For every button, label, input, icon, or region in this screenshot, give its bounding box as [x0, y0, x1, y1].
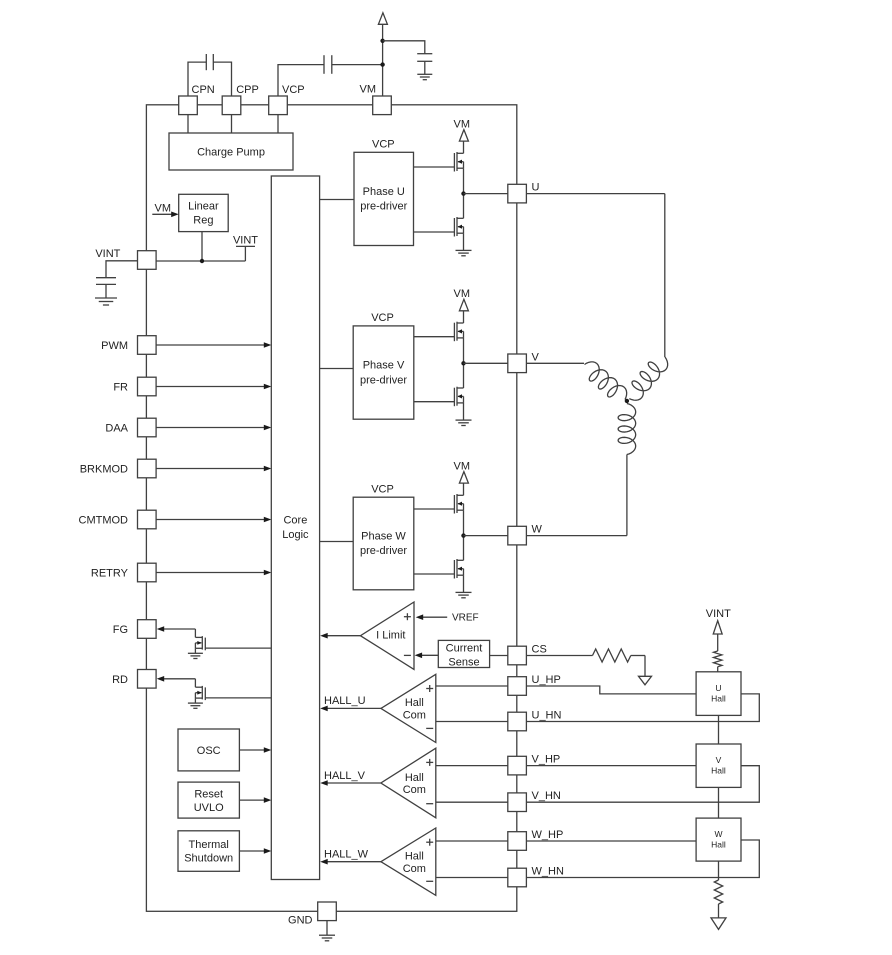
- svg-text:CS: CS: [532, 644, 547, 656]
- svg-text:U: U: [715, 683, 721, 693]
- svg-text:PWM: PWM: [101, 340, 128, 352]
- svg-text:VCP: VCP: [371, 312, 394, 324]
- svg-text:VINT: VINT: [95, 248, 120, 260]
- svg-text:V_HP: V_HP: [532, 754, 561, 766]
- svg-text:CPP: CPP: [236, 84, 259, 96]
- svg-text:U_HN: U_HN: [532, 710, 562, 722]
- svg-text:FG: FG: [113, 624, 128, 636]
- svg-text:VM: VM: [360, 84, 377, 96]
- svg-text:Hall: Hall: [711, 840, 726, 850]
- svg-text:pre-driver: pre-driver: [360, 545, 407, 557]
- svg-text:pre-driver: pre-driver: [360, 374, 407, 386]
- svg-text:HALL_V: HALL_V: [324, 770, 366, 782]
- svg-text:V: V: [716, 755, 722, 765]
- svg-text:VREF: VREF: [452, 613, 479, 624]
- svg-text:W: W: [532, 524, 543, 536]
- svg-text:VM: VM: [454, 118, 471, 130]
- svg-text:VINT: VINT: [706, 608, 731, 620]
- svg-text:Thermal: Thermal: [189, 839, 229, 851]
- svg-text:VCP: VCP: [282, 84, 305, 96]
- svg-text:VINT: VINT: [233, 235, 258, 247]
- svg-text:Hall: Hall: [711, 766, 726, 776]
- svg-text:VCP: VCP: [372, 139, 395, 151]
- svg-text:pre-driver: pre-driver: [360, 201, 407, 213]
- svg-text:Hall: Hall: [405, 772, 424, 784]
- svg-text:GND: GND: [288, 915, 313, 927]
- svg-text:HALL_U: HALL_U: [324, 695, 366, 707]
- svg-text:CPN: CPN: [192, 84, 215, 96]
- svg-text:Phase U: Phase U: [363, 186, 405, 198]
- svg-text:Charge Pump: Charge Pump: [197, 146, 265, 158]
- svg-text:W: W: [714, 829, 722, 839]
- svg-text:RETRY: RETRY: [91, 568, 129, 580]
- svg-text:U: U: [532, 182, 540, 194]
- svg-text:FR: FR: [113, 382, 128, 394]
- svg-text:Logic: Logic: [282, 529, 309, 541]
- svg-text:V_HN: V_HN: [532, 790, 561, 802]
- svg-text:Com: Com: [403, 710, 426, 722]
- svg-text:VM: VM: [454, 288, 471, 300]
- svg-text:Sense: Sense: [448, 656, 479, 668]
- svg-text:Phase W: Phase W: [361, 531, 406, 543]
- svg-text:RD: RD: [112, 674, 128, 686]
- svg-text:Shutdown: Shutdown: [184, 853, 233, 865]
- svg-text:BRKMOD: BRKMOD: [80, 464, 128, 476]
- svg-text:V: V: [532, 351, 540, 363]
- svg-text:Current: Current: [446, 643, 483, 655]
- svg-text:W_HN: W_HN: [532, 866, 564, 878]
- svg-text:Linear: Linear: [188, 201, 219, 213]
- svg-text:Hall: Hall: [405, 697, 424, 709]
- svg-text:Com: Com: [403, 784, 426, 796]
- svg-text:VM: VM: [155, 203, 172, 215]
- svg-text:Hall: Hall: [405, 851, 424, 863]
- svg-text:HALL_W: HALL_W: [324, 849, 369, 861]
- svg-text:DAA: DAA: [105, 423, 128, 435]
- svg-text:Hall: Hall: [711, 694, 726, 704]
- svg-text:Com: Com: [403, 863, 426, 875]
- svg-text:UVLO: UVLO: [194, 802, 224, 814]
- svg-text:VCP: VCP: [371, 483, 394, 495]
- svg-text:CMTMOD: CMTMOD: [79, 515, 129, 527]
- svg-text:I Limit: I Limit: [376, 630, 405, 642]
- svg-text:VM: VM: [454, 460, 471, 472]
- svg-text:Reg: Reg: [193, 214, 213, 226]
- svg-text:U_HP: U_HP: [532, 674, 561, 686]
- svg-text:OSC: OSC: [197, 745, 221, 757]
- svg-text:W_HP: W_HP: [532, 829, 564, 841]
- svg-text:Reset: Reset: [194, 788, 223, 800]
- svg-text:Core: Core: [283, 515, 307, 527]
- svg-text:Phase V: Phase V: [363, 360, 405, 372]
